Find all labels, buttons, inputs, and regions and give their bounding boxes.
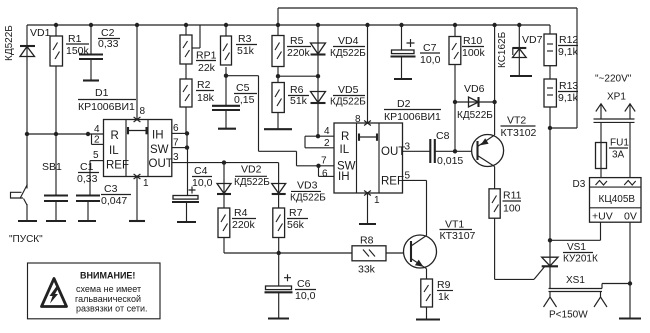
svg-text:КД522Б: КД522Б: [457, 110, 493, 121]
svg-text:7: 7: [173, 138, 179, 149]
ground D2 pin1: [359, 223, 376, 225]
svg-text:КР1006ВИ1: КР1006ВИ1: [78, 101, 135, 113]
node VS1 anode junction: [548, 238, 552, 242]
plug XP1: [594, 74, 636, 178]
pin 1 D2: [364, 191, 380, 225]
resistor R8 33k: [352, 235, 410, 276]
svg-text:R: R: [341, 131, 349, 143]
ground SB1: [18, 220, 37, 222]
svg-text:C7: C7: [423, 42, 437, 54]
svg-text:7: 7: [321, 156, 327, 167]
svg-text:SB1: SB1: [42, 161, 62, 173]
svg-text:КТ3102: КТ3102: [501, 127, 537, 139]
svg-text:10,0: 10,0: [295, 290, 316, 302]
svg-text:VT1: VT1: [445, 219, 464, 231]
svg-text:4: 4: [94, 124, 100, 135]
svg-text:КД522Б: КД522Б: [330, 97, 366, 108]
svg-text:схема не имеет: схема не имеет: [76, 284, 141, 294]
svg-text:10,0: 10,0: [192, 177, 213, 189]
pin 7 D2: [297, 156, 335, 169]
pin 1 D1: [134, 174, 149, 221]
socket XS1: [544, 275, 608, 321]
wire bridge 0V to ground: [602, 222, 632, 318]
svg-text:"~220V": "~220V": [595, 74, 632, 85]
resistor R11 100: [489, 167, 522, 280]
svg-text:5: 5: [405, 171, 411, 182]
wire R11 to VS1 gate: [495, 267, 545, 280]
ground C2: [83, 79, 99, 81]
svg-text:18k: 18k: [197, 92, 215, 104]
resistor R6 51k: [272, 83, 309, 130]
svg-text:C8: C8: [436, 130, 450, 142]
warning box: [28, 263, 161, 319]
svg-text:51k: 51k: [237, 45, 255, 57]
resistor R3 51k: [221, 23, 258, 106]
svg-text:REF: REF: [106, 160, 129, 172]
ground R6: [264, 128, 292, 130]
wire VT1 collector to REF D2: [426, 180, 428, 235]
svg-text:3: 3: [405, 142, 411, 153]
thyristor VS1 КУ201К: [542, 240, 598, 288]
node C8 to R10/VD6: [453, 149, 457, 153]
svg-text:КУ201К: КУ201К: [563, 254, 598, 265]
svg-text:IH: IH: [338, 171, 350, 183]
svg-text:1k: 1k: [438, 291, 450, 303]
svg-text:IH: IH: [152, 130, 164, 142]
svg-text:RP1: RP1: [196, 50, 217, 62]
svg-text:R: R: [111, 130, 119, 142]
svg-text:100k: 100k: [462, 47, 486, 59]
svg-text:5: 5: [93, 150, 99, 161]
svg-text:SW: SW: [150, 144, 169, 156]
node VD6 right: [492, 100, 496, 104]
node VD6 left: [453, 100, 457, 104]
svg-text:VD4: VD4: [338, 35, 359, 47]
transistor Q1 VT1 КТ3107: [404, 219, 476, 269]
svg-text:33k: 33k: [358, 264, 376, 276]
fuse FU1 3A: [596, 138, 630, 178]
node VD1/C1 junction: [54, 132, 58, 136]
ground C1: [46, 220, 66, 222]
resistor RP1 22k trimmer: [180, 23, 217, 74]
node VD2 top: [222, 160, 226, 164]
diode VD6 КД522Б: [455, 83, 495, 121]
pin 6 D1: [172, 123, 189, 136]
wire upper bypass rail: [278, 8, 577, 128]
capacitor C5 0,15: [212, 82, 257, 129]
svg-text:22k: 22k: [198, 62, 216, 74]
pin 2 D2: [305, 136, 334, 149]
svg-text:D3: D3: [573, 179, 586, 190]
svg-text:VT2: VT2: [507, 115, 526, 127]
svg-text:КТ3107: КТ3107: [440, 230, 476, 242]
svg-text:КЦ405В: КЦ405В: [599, 194, 636, 205]
transistor Q2 VT2 КТ3102: [472, 115, 537, 167]
svg-text:VD5: VD5: [338, 84, 359, 96]
wire divider to VD4/VD5: [278, 75, 318, 77]
svg-text:P<150W: P<150W: [549, 310, 588, 321]
pin 6 D2: [319, 166, 335, 180]
wire VT2 collector rail: [492, 23, 496, 135]
svg-text:R5: R5: [290, 35, 304, 47]
ground R9: [416, 318, 440, 320]
svg-text:220k: 220k: [287, 47, 311, 59]
svg-text:D1: D1: [95, 87, 109, 99]
svg-text:R3: R3: [238, 33, 252, 45]
capacitor C2 0,33: [79, 23, 120, 81]
svg-text:OUT: OUT: [149, 158, 173, 170]
wire bottom timing bus: [224, 252, 352, 254]
svg-text:3: 3: [173, 152, 179, 163]
zener VD7 КС162Б: [497, 23, 543, 76]
node SB1 top: [25, 132, 29, 136]
svg-text:R8: R8: [360, 235, 374, 247]
svg-text:0,015: 0,015: [437, 155, 463, 167]
svg-text:0,33: 0,33: [77, 173, 98, 185]
node R7/C6: [277, 251, 281, 255]
svg-text:C6: C6: [297, 278, 311, 290]
svg-text:VD6: VD6: [464, 83, 485, 95]
svg-text:ВНИМАНИЕ!: ВНИМАНИЕ!: [80, 271, 135, 281]
svg-text:0,047: 0,047: [101, 195, 127, 207]
svg-text:R12: R12: [559, 34, 578, 46]
diode VD2 КД522Б: [217, 163, 270, 208]
pin 3 D2 OUT: [403, 142, 431, 153]
svg-text:КС162Б: КС162Б: [497, 31, 508, 68]
svg-text:R4: R4: [234, 207, 248, 219]
resistor R5 220k: [272, 25, 311, 84]
svg-text:100: 100: [503, 203, 521, 215]
node R5/R6 divider: [276, 74, 280, 78]
pin 4 D2: [305, 126, 334, 137]
svg-text:VD7: VD7: [522, 34, 543, 46]
svg-text:IL: IL: [340, 144, 350, 156]
svg-text:XP1: XP1: [607, 92, 626, 103]
svg-text:0,33: 0,33: [98, 38, 119, 50]
svg-text:VD1: VD1: [30, 27, 51, 39]
svg-text:6: 6: [322, 169, 328, 180]
svg-text:2: 2: [94, 135, 100, 146]
svg-text:R10: R10: [463, 35, 482, 47]
pin 3 D1 OUT wire: [172, 152, 279, 163]
capacitor C7 10,0 electrolytic: [391, 23, 441, 79]
node R5 top: [276, 23, 280, 27]
ground D1 pin1: [129, 220, 145, 222]
diode VD1: [20, 25, 51, 134]
capacitor C4 10,0 electrolytic: [172, 148, 213, 222]
svg-text:56k: 56k: [287, 219, 305, 231]
svg-text:развязки от сети.: развязки от сети.: [76, 304, 147, 314]
pin 8 D1: [134, 23, 146, 122]
svg-text:КД522Б: КД522Б: [290, 193, 326, 204]
svg-text:REF: REF: [381, 176, 404, 188]
svg-text:C5: C5: [236, 82, 250, 94]
wire C5 branch to pin7 D2: [224, 74, 297, 166]
svg-text:FU1: FU1: [610, 138, 629, 149]
op-amp U2: timer D2 КР1006ВИ1 box: [334, 98, 441, 193]
svg-text:C1: C1: [80, 161, 94, 173]
svg-text:R11: R11: [503, 190, 522, 202]
svg-text:R7: R7: [289, 207, 303, 219]
pin 7 D1: [172, 138, 189, 150]
op-amp U1: timer D1 КР1006ВИ1 box: [78, 87, 173, 177]
diode VD4 КД522Б: [311, 23, 367, 76]
svg-text:OUT: OUT: [381, 146, 405, 158]
pushbutton SB1: [11, 134, 63, 221]
svg-text:R1: R1: [68, 33, 82, 45]
ground 0V: [619, 317, 641, 319]
resistor R7 56k: [273, 207, 308, 253]
ground C4: [177, 221, 196, 223]
svg-text:IL: IL: [109, 145, 119, 157]
svg-text:D2: D2: [397, 98, 411, 110]
svg-text:C4: C4: [194, 165, 208, 177]
svg-text:+UV: +UV: [592, 211, 613, 223]
bridge rectifier D3 КЦ405В: [573, 178, 642, 223]
resistor R10 100k: [449, 23, 486, 152]
capacitor C3 0,047: [76, 183, 131, 221]
svg-text:6: 6: [173, 123, 179, 134]
wire bridge +UV to VS1: [550, 222, 601, 240]
svg-text:8: 8: [140, 106, 146, 117]
ground C3: [78, 220, 96, 222]
pin 5 D1 REF to C3: [90, 150, 104, 195]
wire left signal rail: [27, 133, 104, 135]
svg-text:1: 1: [374, 195, 380, 206]
wire main VCC rail: [27, 24, 550, 26]
svg-text:КД522Б: КД522Б: [4, 25, 15, 61]
svg-text:КД522Б: КД522Б: [330, 48, 366, 59]
capacitor C1 0,33: [44, 134, 99, 221]
pin 5 D2 REF wire: [403, 171, 427, 182]
svg-text:8: 8: [355, 114, 361, 125]
resistor R1 150k: [50, 23, 90, 134]
resistor R13 9,1k: [544, 79, 579, 240]
ground VD7: [510, 75, 532, 77]
svg-text:гальванической: гальванической: [75, 294, 141, 304]
svg-text:C3: C3: [104, 183, 118, 195]
pin 2 D1: [92, 134, 104, 146]
svg-text:9,1k: 9,1k: [558, 92, 579, 104]
node R13 bottom / bypass: [548, 126, 552, 130]
node VD5 to pin4 D2: [316, 134, 320, 138]
svg-text:VS1: VS1: [567, 242, 586, 253]
svg-text:R2: R2: [197, 79, 211, 91]
svg-text:220k: 220k: [232, 219, 256, 231]
svg-text:1: 1: [143, 178, 149, 189]
ground C6: [268, 317, 289, 319]
svg-text:КД522Б: КД522Б: [234, 177, 270, 188]
svg-text:3A: 3A: [612, 150, 625, 161]
svg-text:VD2: VD2: [241, 164, 262, 176]
svg-text:"ПУСК": "ПУСК": [9, 234, 43, 245]
pin 8 D2: [355, 23, 371, 126]
svg-text:9,1k: 9,1k: [558, 46, 579, 58]
svg-text:XS1: XS1: [566, 275, 585, 286]
svg-text:10,0: 10,0: [420, 54, 441, 66]
svg-text:4: 4: [324, 126, 330, 137]
resistor R9 1k: [421, 269, 453, 320]
ground C5: [218, 128, 236, 130]
svg-text:0V: 0V: [624, 211, 637, 223]
capacitor C6 10,0 electrolytic: [265, 253, 317, 319]
diode VD5 КД522Б: [311, 76, 367, 136]
svg-text:R9: R9: [437, 279, 451, 291]
ground C7: [394, 78, 412, 80]
svg-text:2: 2: [324, 138, 330, 149]
svg-text:VD3: VD3: [297, 180, 318, 192]
node pin4 rail bend: [86, 132, 90, 136]
svg-text:0,15: 0,15: [234, 94, 255, 106]
node VD4/VD5 junction: [316, 74, 320, 78]
resistor R2 18k: [180, 64, 215, 148]
resistor R4 220k: [218, 207, 256, 253]
svg-text:51k: 51k: [290, 95, 308, 107]
resistor R12 9,1k: [544, 25, 579, 79]
svg-text:R13: R13: [559, 80, 578, 92]
diode VD3 КД522Б: [272, 163, 327, 208]
svg-text:КР1006ВИ1: КР1006ВИ1: [384, 111, 441, 123]
capacitor C8 0,015: [430, 130, 476, 167]
